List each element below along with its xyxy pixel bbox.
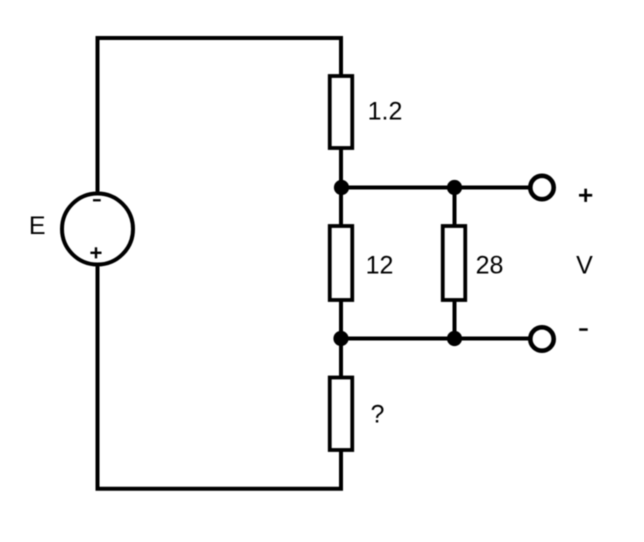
resistor R4 value ?	[330, 378, 353, 451]
wire bottom loop: source bottom to R4 bottom	[98, 267, 342, 489]
wire node B to R3 top	[453, 188, 457, 227]
wire R2 bottom to node C	[339, 300, 343, 339]
terminal plus output	[530, 176, 553, 199]
svg-text:12: 12	[366, 251, 394, 279]
resistor R2 value 12	[330, 226, 353, 300]
resistor R1 value 1.2	[330, 76, 353, 148]
wire node A to terminal plus	[341, 186, 530, 190]
terminal minus output	[530, 327, 553, 350]
source polarity minus	[93, 199, 101, 201]
wire top loop: source top to R1 top	[98, 38, 342, 192]
wire node C to terminal minus	[341, 337, 530, 341]
svg-text:28: 28	[476, 251, 504, 279]
wire node A to R2 top	[339, 188, 343, 227]
svg-text:V: V	[576, 251, 593, 279]
node D junction dot	[447, 331, 462, 346]
source polarity plus	[90, 247, 101, 258]
voltage source E	[62, 194, 133, 265]
label plus at terminal	[579, 189, 592, 202]
node C junction dot	[333, 331, 348, 346]
label minus at terminal	[579, 328, 588, 331]
svg-text:?: ?	[371, 401, 385, 429]
wire node C to R4 top	[339, 339, 343, 378]
svg-text:E: E	[29, 212, 46, 240]
wire R3 bottom to node D	[453, 300, 457, 339]
wire R1 bottom to node A	[339, 148, 343, 188]
node A junction dot	[334, 180, 349, 195]
resistor R3 value 28	[443, 226, 466, 300]
node B junction dot	[447, 180, 462, 195]
svg-text:1.2: 1.2	[368, 98, 403, 126]
